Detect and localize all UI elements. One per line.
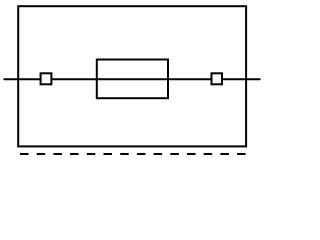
fuse F1 <box>97 60 168 99</box>
terminal (left clamp) <box>41 73 52 84</box>
dashed mounting-rail line <box>20 153 246 155</box>
wire (through conductor) <box>4 78 261 80</box>
component body outline (fuse terminal block) <box>18 6 246 146</box>
terminal (right clamp) <box>212 73 223 84</box>
